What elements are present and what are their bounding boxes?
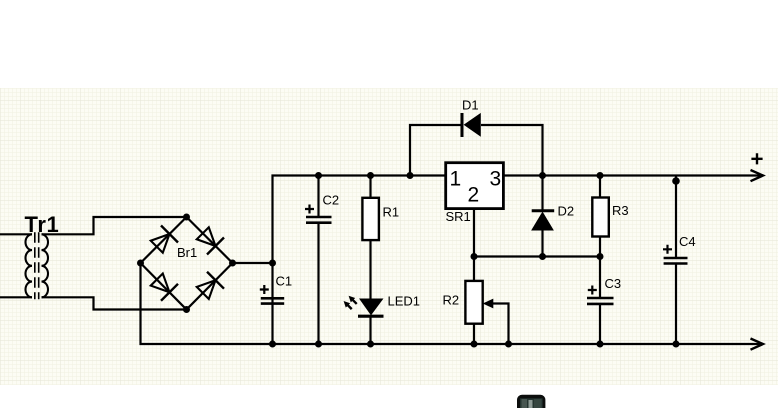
- bridge rectifier Br1: [141, 217, 233, 310]
- LED LED1: [341, 294, 383, 317]
- node bottom wiper: [505, 341, 512, 348]
- node D1 right rail: [539, 172, 546, 179]
- wire top rail right segment: [504, 174, 761, 176]
- regulator U SR1: [446, 163, 504, 209]
- svg-text:3: 3: [490, 168, 502, 191]
- node R3 rail: [597, 172, 604, 179]
- node bottom C4: [673, 341, 680, 348]
- wire bottom rail: [141, 263, 761, 344]
- node C4 rail: [672, 177, 680, 185]
- potentiometer R2: [465, 281, 482, 324]
- svg-text:D1: D1: [462, 98, 479, 113]
- diode Br1 bottom-right: [194, 272, 224, 302]
- wire D2 branch: [541, 176, 543, 257]
- media thumbnail icon: [517, 395, 545, 408]
- output minus terminal arrow: [751, 339, 764, 350]
- wire top rail left segment: [273, 176, 447, 345]
- node bottom C2: [315, 341, 322, 348]
- node adj D2: [539, 253, 546, 260]
- node bottom C3: [597, 341, 604, 348]
- wire transformer secondary bottom to bridge: [42, 297, 187, 309]
- capacitor C2: [305, 205, 332, 223]
- diode Br1 bottom-left: [148, 271, 178, 301]
- diode D2: [532, 211, 555, 230]
- wire C2 branch: [317, 176, 319, 345]
- node bottom LED: [367, 341, 374, 348]
- wire D1 left vertical: [410, 125, 461, 176]
- svg-text:2: 2: [468, 184, 480, 207]
- node bridge left: [137, 260, 144, 267]
- wire bridge right node to C1 line: [233, 262, 273, 264]
- svg-text:D2: D2: [558, 204, 575, 219]
- grid paper background: [0, 88, 778, 385]
- node bridge top: [183, 214, 190, 221]
- svg-text:C3: C3: [605, 276, 622, 291]
- transformer Tr1: [26, 232, 48, 299]
- svg-text:1: 1: [450, 168, 462, 191]
- wire R1 branch: [369, 176, 371, 345]
- wire C4 branch: [675, 176, 677, 345]
- resistor R3: [592, 198, 609, 237]
- node R1 rail: [367, 172, 374, 179]
- node bridge bottom: [183, 306, 190, 313]
- wire transformer top lead: [0, 233, 32, 235]
- wire transformer bottom lead: [0, 296, 32, 298]
- svg-text:SR1: SR1: [446, 209, 471, 224]
- node bridge right: [229, 260, 236, 267]
- resistor R1: [362, 198, 379, 240]
- node dots: [137, 172, 680, 348]
- svg-text:Tr1: Tr1: [25, 212, 60, 237]
- node D1 left rail: [407, 172, 414, 179]
- capacitor C1: [260, 285, 284, 304]
- wire transformer secondary top to bridge: [42, 217, 187, 234]
- node adj R2: [471, 253, 478, 260]
- node bottom R2: [471, 341, 478, 348]
- wire R2 wiper: [491, 304, 509, 345]
- svg-text:Br1: Br1: [177, 245, 197, 260]
- capacitor C3: [587, 286, 614, 304]
- diode Br1 top-right: [194, 225, 224, 255]
- node C1 top: [269, 260, 276, 267]
- svg-text:R1: R1: [383, 204, 400, 219]
- capacitor C4: [663, 245, 688, 264]
- svg-text:C2: C2: [323, 193, 340, 208]
- svg-text:C1: C1: [276, 274, 293, 289]
- svg-text:C4: C4: [679, 234, 696, 249]
- diode D1: [462, 113, 480, 137]
- wire D1 right vertical: [481, 125, 543, 176]
- wire adjust line: [474, 255, 600, 257]
- node bottom C1: [269, 341, 276, 348]
- node C2 rail: [315, 172, 322, 179]
- diode Br1 top-left: [148, 226, 178, 256]
- svg-text:R2: R2: [443, 293, 460, 308]
- wire R3 branch: [599, 176, 601, 257]
- wire SR1 pin2 to R2: [473, 209, 475, 345]
- svg-text:R3: R3: [612, 203, 629, 218]
- wire C3 branch: [599, 257, 601, 345]
- output plus terminal: [751, 153, 764, 181]
- svg-text:LED1: LED1: [388, 294, 421, 309]
- node adj R3: [597, 253, 604, 260]
